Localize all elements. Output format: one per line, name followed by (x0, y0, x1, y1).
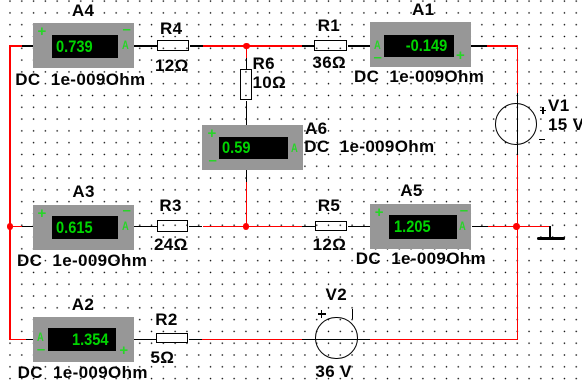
wire: black V1 body line (517, 93, 519, 155)
wire: red A5 to right node (488, 226, 517, 228)
source V1 circle (495, 103, 538, 146)
wire: black R5 left pin (302, 226, 315, 228)
ammeter A6 (vertical branch) (202, 125, 303, 170)
label A6 (305, 120, 327, 137)
V2 plus sign (318, 313, 326, 314)
wire: red A1 to right corner (487, 45, 518, 47)
wire: bottom row red from left bus (9, 339, 26, 341)
wire: black R5 to A5 (348, 226, 370, 228)
label DC under A1 (354, 68, 484, 85)
wire: black A1 right pin (471, 45, 487, 47)
ground stem (549, 226, 551, 237)
label V1 (548, 97, 570, 114)
wire: red R3 to R5 through node (203, 226, 303, 228)
label R2 (155, 311, 177, 328)
junction node middle-left bus (7, 223, 14, 230)
wire: right vertical red below V1 to bottom corner (517, 155, 519, 341)
label A4 (72, 2, 94, 19)
wire: top row black pin into A4 (22, 45, 34, 47)
label 36 V (315, 363, 351, 380)
label R1 (318, 17, 340, 34)
label A1 (412, 1, 434, 18)
resistor R1 (314, 40, 348, 51)
wire: black R3 right pin (189, 226, 202, 228)
wire: black R1 to A1 (348, 45, 371, 47)
wire: black R1 left pin (302, 45, 314, 47)
wire: black V2 body line (302, 339, 370, 341)
label 12ohm (155, 57, 189, 74)
label A2 (72, 296, 94, 313)
ammeter A4 (33, 23, 134, 68)
label R3 (159, 197, 181, 214)
label 36ohm (312, 54, 346, 71)
wire: right vertical red above V1 (517, 45, 519, 93)
wire: red R2 to V2 (202, 339, 303, 341)
wire: black R2 right pin (189, 339, 202, 341)
resistor R3 (157, 220, 188, 232)
label A5 (400, 182, 422, 199)
ammeter A3 (33, 205, 134, 250)
junction node middle center (243, 223, 250, 230)
wire: black A6 bottom pin (246, 170, 248, 182)
label V2 (326, 286, 348, 303)
wire: black R6 to A6 (246, 101, 248, 125)
ammeter A2 (rotated 180) (33, 317, 134, 362)
label R4 (160, 20, 182, 37)
label 15 V (548, 116, 582, 133)
wire: black R6 top pin (246, 58, 248, 69)
ground bar (537, 237, 564, 240)
label DC right of A6 (304, 138, 434, 155)
label R5 (318, 197, 340, 214)
label 12ohm R5 (313, 236, 347, 253)
wire: black pin into A3 (22, 226, 34, 228)
wire: middle row red lead from left bus (9, 226, 22, 228)
wire: red node to ground branch (517, 226, 551, 228)
wire: black A5 right pin (472, 226, 488, 228)
V1 minus sign (539, 139, 546, 140)
wire: left vertical bus (9, 45, 11, 340)
wire: black A4 to R4 (134, 45, 158, 47)
label 24ohm (154, 236, 188, 253)
V1 plus sign (540, 110, 547, 111)
label DC under A2 (18, 364, 148, 381)
wire: red node stub below top junction (246, 45, 248, 58)
resistor R4 (157, 40, 189, 51)
junction node middle right (513, 223, 520, 230)
label 5ohm (151, 349, 175, 366)
wire: top row red A4 lead-in (9, 45, 22, 47)
ammeter A1 (rotated 180) (370, 22, 471, 67)
label DC under A3 (17, 252, 147, 269)
wire: red R4 to R1 through node (203, 45, 302, 47)
label 10ohm (253, 74, 287, 91)
label DC under A4 (15, 71, 145, 88)
wire: black A2 to R2 (134, 339, 156, 341)
source V2 circle (315, 317, 358, 360)
label A3 (72, 183, 94, 200)
wire: red A6 to middle junction (246, 182, 248, 226)
wire: black pin into A2 (26, 339, 34, 341)
junction node top (243, 43, 250, 50)
label DC under A5 (356, 250, 486, 267)
resistor R5 (315, 221, 348, 231)
wire: black R4 right pin (190, 45, 203, 47)
label R6 (253, 55, 275, 72)
wire: black A3 to R3 (134, 226, 158, 228)
resistor R2 (156, 333, 188, 343)
wire: red V2 to bottom right corner (370, 339, 518, 341)
resistor R6 (vertical) (240, 69, 252, 101)
V2 minus sign (rotated, vertical bar) (352, 309, 353, 319)
ammeter A5 (370, 204, 471, 249)
